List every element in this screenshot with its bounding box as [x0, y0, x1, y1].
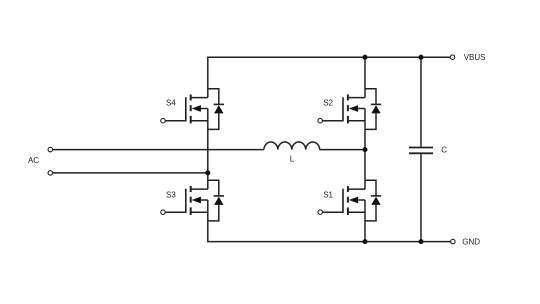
wire: S1 drain lead	[348, 188, 365, 190]
wire: AC line (bottom) to left midpoint node	[52, 172, 207, 174]
S4 gate electrode bar	[185, 97, 187, 121]
gate terminal circle of S1	[318, 210, 323, 215]
wire: S2 drain lead	[348, 97, 365, 99]
node: AC neutral / left midpoint junction	[205, 170, 210, 175]
svg-text:S4: S4	[166, 99, 176, 108]
S2 channel segments	[347, 95, 349, 124]
wire: S1 body lead with substrate arrow	[349, 197, 365, 204]
transistor S3 (N-MOSFET with body diode)	[161, 180, 224, 221]
terminal: VBUS output	[450, 55, 455, 60]
wire: S2 body-diode branch	[365, 89, 376, 130]
S4 channel segments	[190, 95, 192, 124]
wire: left half-bridge midpoint vertical (S4 source to S3 drain)	[207, 109, 209, 190]
wire: AC line (top) to inductor	[52, 149, 264, 151]
wire: S1 gate lead	[322, 211, 343, 213]
node: bottom rail / capacitor junction	[419, 239, 424, 244]
body diode of S4	[214, 104, 224, 113]
node: bottom rail / S1 source junction	[363, 239, 368, 244]
wire: VBUS top rail with S4 drain drop	[208, 57, 451, 97]
wire: S3 drain lead	[191, 188, 208, 190]
wire: S4 body-diode branch	[208, 89, 219, 130]
wire: S2 source lead	[348, 120, 365, 122]
wire: S1 source vertical	[364, 200, 366, 242]
transistor S1 (N-MOSFET with body diode)	[318, 180, 381, 221]
wire: S2 gate lead	[322, 120, 343, 122]
S3 gate electrode bar	[185, 189, 187, 213]
svg-text:C: C	[441, 145, 447, 154]
gate terminal circle of S2	[318, 118, 323, 123]
gate terminal circle of S3	[161, 210, 166, 215]
svg-text:GND: GND	[462, 237, 480, 246]
wire: S3 body-diode branch	[208, 180, 219, 221]
body diode of S3	[214, 196, 224, 205]
wire: S1 body-diode branch	[365, 180, 376, 221]
wire: S4 gate lead	[165, 120, 186, 122]
terminal: AC neutral input	[48, 171, 53, 176]
svg-text:VBUS: VBUS	[464, 53, 486, 62]
svg-text:S2: S2	[323, 99, 333, 108]
wire: capacitor top branch	[420, 57, 422, 146]
wire: S1 source lead	[348, 211, 365, 213]
svg-text:S1: S1	[323, 191, 333, 200]
node: top rail / capacitor junction	[419, 55, 424, 60]
body diode of S2	[371, 104, 381, 113]
wire: right half-bridge midpoint vertical (S2 source to S1 drain)	[364, 109, 366, 190]
wire: inductor to right midpoint node	[320, 149, 365, 151]
wire: S2 drain vertical	[364, 57, 366, 97]
S1 gate electrode bar	[342, 189, 344, 213]
wire: S3 source lead	[191, 211, 208, 213]
svg-text:S3: S3	[166, 191, 176, 200]
wire: GND bottom rail with S3 source drop	[208, 200, 451, 242]
terminal: AC line input	[48, 147, 53, 152]
S1 channel segments	[347, 186, 349, 215]
node: top rail / S2 drain junction	[363, 55, 368, 60]
capacitor C	[409, 148, 433, 154]
svg-text:L: L	[290, 154, 295, 163]
svg-text:AC: AC	[28, 156, 39, 165]
inductor L	[264, 142, 320, 150]
wire: S4 source lead	[191, 120, 208, 122]
transistor S2 (N-MOSFET with body diode)	[318, 89, 381, 130]
transistor S4 (N-MOSFET with body diode)	[161, 89, 224, 130]
gate terminal circle of S4	[161, 118, 166, 123]
wire: S4 body lead with substrate arrow	[192, 105, 208, 112]
wire: S2 body lead with substrate arrow	[349, 105, 365, 112]
wire: S3 gate lead	[165, 211, 186, 213]
S3 channel segments	[190, 186, 192, 215]
wire: capacitor bottom branch	[420, 154, 422, 241]
terminal: GND output	[451, 239, 456, 244]
wire: S3 body lead with substrate arrow	[192, 197, 208, 204]
S2 gate electrode bar	[342, 97, 344, 121]
wire: S4 drain lead	[191, 97, 208, 99]
node: inductor / right midpoint junction	[363, 147, 368, 152]
body diode of S1	[371, 196, 381, 205]
